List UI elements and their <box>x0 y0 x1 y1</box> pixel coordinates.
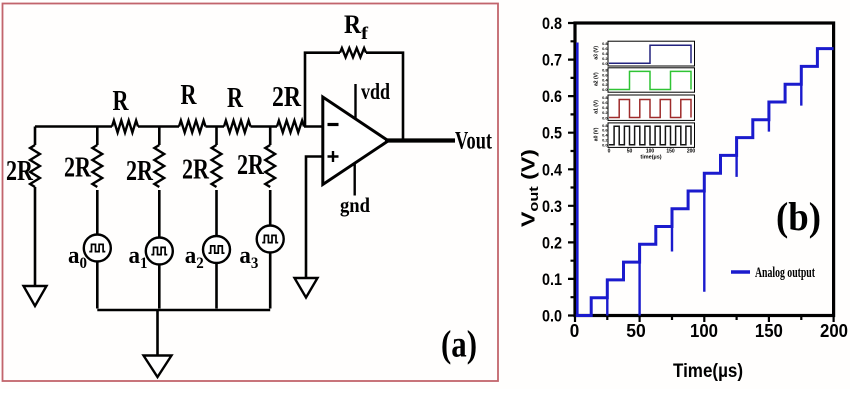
panel label (b) <box>776 194 821 239</box>
svg-text:a2 (V): a2 (V) <box>594 72 600 86</box>
svg-text:2R: 2R <box>64 153 92 184</box>
svg-text:Time(µs): Time(µs) <box>673 361 743 382</box>
svg-text:2: 2 <box>196 255 204 272</box>
resistor 2R (series, node D to op-amp) <box>272 82 304 133</box>
inset digital input waveforms <box>594 41 696 160</box>
svg-text:0.0: 0.0 <box>602 61 607 66</box>
node Vout <box>455 128 492 155</box>
svg-text:0.4: 0.4 <box>542 160 562 179</box>
source a0 (digital input, square-wave generator) <box>68 190 111 309</box>
source a2 (digital input, square-wave generator) <box>185 190 230 309</box>
svg-text:0: 0 <box>80 255 88 272</box>
chart (b) axes frame <box>568 23 834 322</box>
svg-text:a: a <box>239 243 251 269</box>
chart y tick labels <box>542 14 562 326</box>
svg-text:0.3: 0.3 <box>542 197 562 216</box>
wire: bottom bus joining sources <box>97 309 270 312</box>
resistor Rf (feedback) <box>340 10 369 57</box>
svg-text:50: 50 <box>627 149 633 155</box>
svg-text:a3 (V): a3 (V) <box>594 46 600 60</box>
svg-text:a0 (V): a0 (V) <box>594 127 600 141</box>
resistor 2R (bit a0 branch) <box>64 127 102 188</box>
svg-text:3: 3 <box>251 255 259 272</box>
resistor R (series, node A-B) <box>112 86 138 133</box>
svg-text:vdd: vdd <box>361 79 390 104</box>
ground (non-inverting input) <box>295 278 318 298</box>
svg-text:0.5: 0.5 <box>542 124 562 143</box>
svg-text:50: 50 <box>626 320 646 341</box>
svg-text:2R: 2R <box>237 150 265 181</box>
svg-text:a: a <box>129 243 141 269</box>
resistor 2R (bit a1 branch) <box>126 127 164 188</box>
svg-text:2R: 2R <box>6 156 34 187</box>
svg-text:0.8: 0.8 <box>542 14 562 33</box>
svg-text:0.0: 0.0 <box>602 87 607 92</box>
legend: Analog output <box>731 265 815 281</box>
svg-text:a: a <box>185 243 197 269</box>
svg-text:0.0: 0.0 <box>602 142 607 147</box>
power vdd pin <box>356 79 391 119</box>
svg-text:time(µs): time(µs) <box>640 155 661 161</box>
chart y axis title Vout (V) <box>518 149 542 227</box>
resistor 2R (bit a2 branch) <box>182 127 221 188</box>
svg-text:0.0: 0.0 <box>602 115 607 120</box>
wire: bus stem to ground <box>156 310 159 356</box>
svg-text:(b): (b) <box>776 194 821 239</box>
chart x tick labels <box>570 320 848 341</box>
svg-text:0: 0 <box>608 149 611 155</box>
svg-text:R: R <box>181 80 198 111</box>
svg-text:(a): (a) <box>441 324 477 366</box>
resistor 2R (bit a3 branch) <box>237 127 275 188</box>
panel label (a) <box>441 324 477 366</box>
svg-text:150: 150 <box>666 149 675 155</box>
svg-text:0.2: 0.2 <box>542 233 562 252</box>
resistor R (series, node B-C) <box>179 80 206 133</box>
svg-text:1: 1 <box>140 255 148 272</box>
svg-text:2R: 2R <box>272 82 302 113</box>
svg-text:Vout: Vout <box>455 128 492 155</box>
svg-text:a: a <box>68 243 80 269</box>
ground (bottom, sources common) <box>144 356 172 378</box>
svg-text:gnd: gnd <box>340 193 370 217</box>
svg-text:0.7: 0.7 <box>542 51 562 70</box>
svg-text:2R: 2R <box>126 156 154 187</box>
svg-text:R: R <box>227 83 244 114</box>
svg-text:200: 200 <box>820 320 848 341</box>
wire: feedback loop <box>305 53 403 141</box>
svg-text:Analog output: Analog output <box>755 265 815 281</box>
red border frame of panel (a) <box>3 4 499 382</box>
svg-text:2R: 2R <box>182 155 210 186</box>
chart x axis title Time(us) <box>673 361 743 382</box>
svg-text:a1 (V): a1 (V) <box>594 100 600 114</box>
source a1 (digital input, square-wave generator) <box>129 190 173 309</box>
svg-text:R: R <box>113 86 130 117</box>
op-amp U1 <box>323 97 389 185</box>
wire: top rail from node A to inverting input <box>35 125 323 128</box>
svg-text:150: 150 <box>755 320 783 341</box>
resistor R (series, node C-D) <box>224 83 251 133</box>
svg-text:0.6: 0.6 <box>542 87 562 106</box>
svg-text:100: 100 <box>690 320 718 341</box>
svg-text:0: 0 <box>570 320 580 341</box>
svg-text:f: f <box>361 23 369 43</box>
resistor 2R (terminator) <box>6 127 40 188</box>
svg-text:0.1: 0.1 <box>542 270 562 289</box>
source a3 (digital input, square-wave generator) <box>239 190 283 309</box>
wire: terminator 2R down lead <box>34 187 37 286</box>
svg-text:0.0: 0.0 <box>542 307 562 326</box>
svg-text:R: R <box>344 10 361 39</box>
svg-text:200: 200 <box>687 149 696 155</box>
power gnd pin <box>340 163 370 218</box>
wire: non-inverting input to ground <box>306 157 323 279</box>
staircase analog output curve <box>576 43 834 316</box>
ground (left terminator) <box>24 286 47 306</box>
wire: output <box>385 138 455 142</box>
